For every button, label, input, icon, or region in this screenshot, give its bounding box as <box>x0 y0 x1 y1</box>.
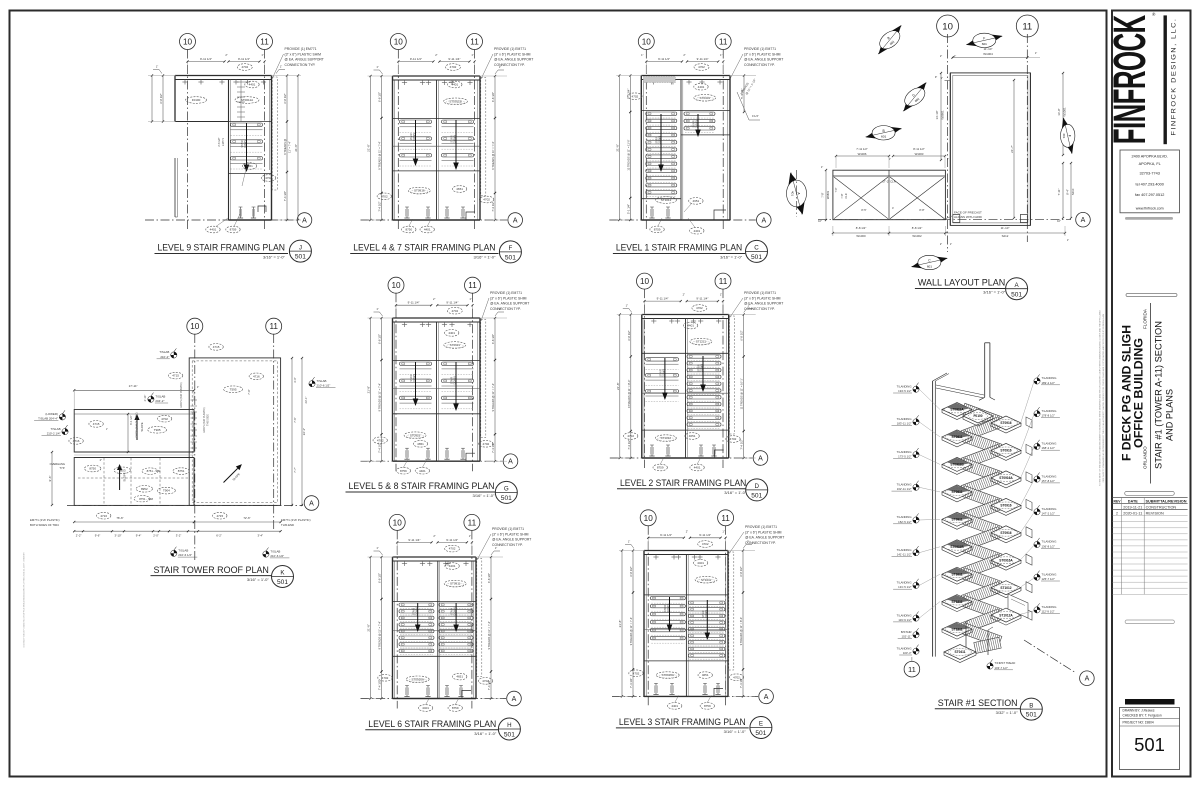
svg-text:CONSTRUCTION: CONSTRUCTION <box>1146 506 1177 510</box>
svg-text:TYP.: TYP. <box>59 466 65 470</box>
section landing left ST1211 <box>942 622 972 636</box>
svg-text:1": 1" <box>947 158 949 161</box>
svg-text:1": 1" <box>197 385 199 389</box>
level5-8 tag 8759 <box>396 467 410 474</box>
svg-text:401: 401 <box>1062 133 1066 138</box>
svg-text:401: 401 <box>791 191 795 196</box>
level2 stair down arrow 1 <box>664 358 666 393</box>
level4-7 tag 8750 <box>402 226 416 233</box>
svg-text:W1001: W1001 <box>1063 107 1067 117</box>
svg-text:6'-8 1/2": 6'-8 1/2" <box>491 92 495 102</box>
svg-text:4401: 4401 <box>210 228 217 232</box>
svg-text:ST0916: ST0916 <box>1000 421 1011 425</box>
svg-text:11: 11 <box>260 38 269 47</box>
svg-text:125'-7 1/2": 125'-7 1/2" <box>1042 577 1055 581</box>
section section bubble A <box>1080 671 1095 686</box>
svg-text:501: 501 <box>1011 291 1022 298</box>
svg-text:OFFICE BUILDING: OFFICE BUILDING <box>1134 338 1146 448</box>
svg-text:9 TREADS @: 9 TREADS @ <box>283 138 287 154</box>
section bottom landing <box>944 645 976 660</box>
svg-text:CONNECTION TYP.: CONNECTION TYP. <box>490 307 521 311</box>
level4-7 top dimension chain <box>398 61 433 63</box>
level6 tread run 1 <box>399 603 434 655</box>
svg-text:4702: 4702 <box>632 94 639 98</box>
svg-text:T/LANDING: T/LANDING <box>897 548 912 552</box>
section t/first tread label <box>987 659 993 669</box>
svg-text:1": 1" <box>722 529 724 533</box>
svg-text:STAIR #1 SECTION: STAIR #1 SECTION <box>938 697 1018 708</box>
svg-text:9'-11 1/4": 9'-11 1/4" <box>446 301 458 305</box>
svg-text:11: 11 <box>1022 22 1032 33</box>
svg-text:21'-8": 21'-8" <box>294 144 298 152</box>
svg-text:11: 11 <box>719 38 728 47</box>
svg-text:11: 11 <box>468 281 477 290</box>
level5-8 tread run 1 <box>400 362 432 409</box>
svg-text:W1004: W1004 <box>983 52 993 56</box>
svg-text:T/FIRST TREAD: T/FIRST TREAD <box>995 661 1016 665</box>
svg-text:23'-1": 23'-1" <box>304 397 308 404</box>
roofplan left dim 9-6 <box>51 452 53 505</box>
svg-text:BOTH SIDES OF T904: BOTH SIDES OF T904 <box>30 523 59 527</box>
svg-text:T/LANDING: T/LANDING <box>897 483 912 487</box>
svg-text:CLR: CLR <box>844 193 848 198</box>
roofplan grid bubble 11 <box>266 318 282 334</box>
svg-text:DOWN: DOWN <box>659 136 662 144</box>
svg-text:2: 2 <box>1116 512 1118 516</box>
svg-text:H: H <box>507 722 511 729</box>
svg-text:2": 2" <box>940 243 942 246</box>
svg-text:A: A <box>1081 217 1086 224</box>
level4-7 tag 4401 <box>420 226 434 233</box>
svg-text:4702: 4702 <box>382 676 389 680</box>
svg-text:2020-01-11: 2020-01-11 <box>1123 512 1142 516</box>
svg-text:9'-6": 9'-6" <box>95 534 101 538</box>
svg-text:(LOWER): (LOWER) <box>45 412 58 416</box>
title block border frame <box>1112 11 1191 777</box>
section flight down-left story 7 <box>961 499 1002 523</box>
level3 embed symbol <box>717 683 719 694</box>
level6 piece tag 4702 <box>478 678 492 685</box>
svg-text:10: 10 <box>642 38 652 47</box>
svg-text:189'-2 1/2": 189'-2 1/2" <box>1042 381 1055 385</box>
svg-text:9'-11 1/4": 9'-11 1/4" <box>696 297 708 301</box>
svg-text:8853: 8853 <box>119 468 126 472</box>
level2 section bubble A <box>753 451 768 466</box>
svg-text:11: 11 <box>468 518 477 527</box>
svg-text:tel 407.293.4000: tel 407.293.4000 <box>1136 183 1164 187</box>
roofplan embed hooks on grid10 wall <box>191 399 198 401</box>
svg-text:4702: 4702 <box>483 198 490 202</box>
section left landing labels <box>913 383 919 393</box>
section flight down-left story 9 <box>961 444 1002 468</box>
svg-text:1": 1" <box>376 307 378 311</box>
svg-text:9'-11 1/4": 9'-11 1/4" <box>448 57 460 61</box>
level1 centre wall <box>680 80 682 221</box>
section section line to A <box>1024 640 1076 673</box>
wallplan section line A <box>818 219 1071 221</box>
level3 embed symbol <box>671 683 673 694</box>
level1 tag 4651 <box>689 198 703 205</box>
svg-text:ST1012: ST1012 <box>661 198 672 202</box>
svg-text:ST0916A: ST0916A <box>999 559 1013 563</box>
roofplan bottom dim row <box>74 521 194 523</box>
roofplan lower-left roof rect <box>74 458 194 506</box>
svg-text:TO THE BEST OF THE ARCHITECT'S: TO THE BEST OF THE ARCHITECT'S AND ENGIN… <box>1099 309 1102 486</box>
section flight down-right story 9 <box>961 431 1002 455</box>
svg-text:6'-8 1/2": 6'-8 1/2" <box>629 566 633 576</box>
svg-text:www.finfrock.com: www.finfrock.com <box>1136 207 1164 211</box>
svg-text:4401: 4401 <box>448 331 455 335</box>
level5-8 centre wall <box>436 322 438 461</box>
svg-text:4651: 4651 <box>693 199 700 203</box>
svg-text:4401: 4401 <box>697 561 704 565</box>
svg-text:EM771 (2'x6' PLASTIC): EM771 (2'x6' PLASTIC) <box>281 518 311 522</box>
svg-text:3/16" = 1'-0": 3/16" = 1'-0" <box>247 578 270 582</box>
svg-text:8'-4": 8'-4" <box>1066 189 1070 195</box>
svg-text:4401: 4401 <box>449 564 456 568</box>
level6 plan outline walls <box>392 557 394 699</box>
svg-text:147'-2 1/2": 147'-2 1/2" <box>1042 512 1055 516</box>
svg-text:7'-4 1/2": 7'-4 1/2" <box>378 201 382 211</box>
svg-text:T/LANDING: T/LANDING <box>1042 507 1057 511</box>
svg-text:4401: 4401 <box>687 324 694 328</box>
section top rail <box>936 388 984 398</box>
svg-text:103'-7 1/2": 103'-7 1/2" <box>995 666 1008 670</box>
svg-text:7'-4 1/2": 7'-4 1/2" <box>487 680 491 690</box>
svg-text:A: A <box>513 218 518 225</box>
level6 top dimension chain <box>397 541 431 543</box>
level3 landing beam lines <box>644 594 728 596</box>
svg-text:6'-8 1/2": 6'-8 1/2" <box>283 93 287 103</box>
svg-text:119'-9 1/2": 119'-9 1/2" <box>898 618 911 622</box>
svg-text:PROVIDE (1) EM771: PROVIDE (1) EM771 <box>744 291 776 295</box>
level3 piece tag 4702 <box>629 670 643 677</box>
level9 landing beam lines <box>229 121 272 123</box>
svg-text:4702: 4702 <box>265 176 272 180</box>
svg-text:4651: 4651 <box>246 164 253 168</box>
section flight down-right story 2 <box>961 623 1002 647</box>
svg-text:DOWN: DOWN <box>413 374 416 382</box>
level3 piece tag 4651 <box>698 672 712 679</box>
level4-7 tread run 1 <box>400 120 432 166</box>
svg-text:4716: 4716 <box>253 374 260 378</box>
level1 section cut line A <box>609 219 756 221</box>
svg-text:12 TREADS @ 11" = 11'-0": 12 TREADS @ 11" = 11'-0" <box>626 139 630 170</box>
level2 tag 8759 <box>653 464 667 471</box>
level2 centre wall <box>685 319 687 459</box>
wallplan wall rect inner corner marks <box>949 73 951 226</box>
wallplan brace X left <box>834 177 888 219</box>
level1 plan outline <box>640 76 642 221</box>
level5-8 grid line 10 <box>395 293 397 471</box>
level2 top dimension chain <box>645 300 681 302</box>
svg-text:EM771 (3'x8' PLASTIC): EM771 (3'x8' PLASTIC) <box>180 382 183 407</box>
level9 grid bubble 10 <box>180 34 196 50</box>
svg-text:210'-6 1/2": 210'-6 1/2" <box>270 554 284 558</box>
svg-text:6'-8 1/2": 6'-8 1/2" <box>378 92 382 102</box>
address box <box>1120 150 1179 213</box>
svg-text:EM771: EM771 <box>222 137 225 146</box>
svg-text:LEVEL 3 STAIR FRAMING PLAN: LEVEL 3 STAIR FRAMING PLAN <box>619 716 746 727</box>
level6 embed symbol <box>427 686 429 697</box>
section right edge bar story 10 <box>1026 417 1032 428</box>
svg-text:9 1/4": 9 1/4" <box>752 114 759 118</box>
section top chimney column <box>984 343 986 398</box>
svg-text:T/LANDING: T/LANDING <box>1042 442 1057 446</box>
wallplan bottom dims <box>833 232 889 234</box>
level5-8 embed symbol <box>446 448 448 459</box>
level2 section cut line A <box>610 457 753 459</box>
svg-text:3/16" = 1'-0": 3/16" = 1'-0" <box>474 732 497 736</box>
svg-text:W1000: W1000 <box>856 234 866 238</box>
svg-text:ALIGNS WITH GRID: ALIGNS WITH GRID <box>954 215 983 219</box>
level2 piece tag ST1012 <box>655 435 676 442</box>
svg-text:1": 1" <box>954 54 956 58</box>
section flight down-right story 3 <box>961 596 1002 620</box>
section t/landing low label <box>913 645 919 655</box>
level4-7 embed symbol <box>462 207 464 218</box>
level2 piece tag 4401 <box>683 322 697 329</box>
level4-7 centre wall <box>436 80 438 220</box>
svg-text:4651: 4651 <box>456 187 463 191</box>
svg-text:DATE: DATE <box>1128 499 1139 503</box>
wallplan top-left dims of brace <box>836 155 889 157</box>
level2 piece tag 4651 <box>685 433 699 440</box>
svg-text:B: B <box>1029 702 1033 709</box>
level1 landing beam lines <box>641 110 730 112</box>
svg-text:DOWN: DOWN <box>415 607 418 615</box>
svg-text:72'-6": 72'-6" <box>243 516 250 520</box>
svg-text:9 TREADS @ 11" = 8'-3": 9 TREADS @ 11" = 8'-3" <box>739 617 743 646</box>
wallplan grid bubble 11 <box>1016 15 1038 37</box>
svg-text:1": 1" <box>156 65 158 69</box>
svg-text:3/16" = 1'-0": 3/16" = 1'-0" <box>720 256 743 260</box>
section landing right ST0916A <box>991 471 1021 485</box>
section flight down-left story 10 <box>961 417 1002 441</box>
wallplan lens marker F/601 top <box>966 33 1002 47</box>
svg-text:10: 10 <box>190 322 200 331</box>
wallplan right dim 14-0 W1001 <box>1062 73 1064 155</box>
level4-7 embed symbol <box>427 207 429 218</box>
section right edge bar story 9 <box>1026 444 1032 455</box>
lower grey bar outline <box>1125 620 1174 624</box>
svg-text:76'-6": 76'-6" <box>116 516 123 520</box>
svg-text:DOWN: DOWN <box>454 376 457 384</box>
svg-text:1": 1" <box>950 243 952 246</box>
svg-text:W0801: W0801 <box>941 110 945 120</box>
level1 embed symbols <box>651 207 653 218</box>
roofplan mid double beam <box>74 451 194 453</box>
svg-text:2'-6 1/2": 2'-6 1/2" <box>218 137 221 146</box>
wall section lens A/401 right of level 1 plan <box>787 173 807 215</box>
svg-text:@ EA. ANGLE SUPPORT: @ EA. ANGLE SUPPORT <box>744 58 783 62</box>
svg-text:ORLANDO: ORLANDO <box>1143 446 1148 469</box>
level9 left dimension chain <box>162 76 164 122</box>
level1 left dimension chain <box>629 76 631 113</box>
level6 piece tag 4401 <box>445 563 459 570</box>
revision table <box>1113 497 1188 499</box>
svg-text:1": 1" <box>495 546 497 550</box>
svg-text:178'-8 1/2": 178'-8 1/2" <box>1042 414 1055 418</box>
wallplan section bubble A <box>1076 212 1091 227</box>
level2 grid bubble 11 <box>715 273 731 289</box>
level4-7 dim tag 4702 <box>446 64 461 71</box>
roofplan piece tags lower rect <box>85 465 101 472</box>
svg-text:ST1011: ST1011 <box>952 572 963 576</box>
svg-text:@ EA. ANGLE SUPPORT: @ EA. ANGLE SUPPORT <box>490 302 529 306</box>
section right lower bracket <box>1008 594 1028 618</box>
svg-text:PROVIDE (1) EM771: PROVIDE (1) EM771 <box>744 47 776 51</box>
svg-text:7'-11 1/2": 7'-11 1/2" <box>856 147 868 151</box>
level3 section cut line A <box>612 695 758 697</box>
section flight down-left story 4 <box>961 582 1002 606</box>
svg-text:ST0916A: ST0916A <box>661 673 674 677</box>
svg-text:G: G <box>504 486 509 493</box>
svg-text:1": 1" <box>280 65 282 69</box>
svg-text:(3" x 6") PLASTIC SHIM: (3" x 6") PLASTIC SHIM <box>745 530 782 534</box>
panel H: level 6 stair framing plan <box>361 514 532 740</box>
svg-text:DOWN: DOWN <box>454 607 457 615</box>
svg-text:501: 501 <box>751 254 762 261</box>
svg-text:4401: 4401 <box>671 704 678 708</box>
level6 grid bubble 11 <box>464 514 480 530</box>
level3 grid bubble 11 <box>718 510 734 526</box>
svg-text:9": 9" <box>935 75 937 79</box>
svg-text:ST0911A: ST0911A <box>950 408 964 412</box>
svg-text:501: 501 <box>277 579 288 586</box>
panel E: level 3 stair framing plan <box>612 510 784 739</box>
svg-text:ST1211: ST1211 <box>952 600 963 604</box>
section landing right ST0916 <box>991 498 1021 512</box>
svg-text:21'-8": 21'-8" <box>367 144 371 152</box>
svg-text:210'-2 1/4": 210'-2 1/4" <box>47 431 61 435</box>
section landing left ST0911 <box>942 430 972 444</box>
svg-text:501: 501 <box>505 255 516 262</box>
level4-7 piece tag 4401 <box>448 81 462 88</box>
svg-text:9'-11 1/4": 9'-11 1/4" <box>657 297 669 301</box>
level9 corner step <box>258 206 266 212</box>
svg-text:T/SLAB: T/SLAB <box>317 379 327 383</box>
level5-8 piece tag 4702 <box>479 441 493 448</box>
roofplan t/slab markers <box>59 410 65 420</box>
svg-text:8759: 8759 <box>654 228 661 232</box>
svg-text:4702: 4702 <box>698 65 705 69</box>
svg-text:1": 1" <box>748 304 750 308</box>
svg-text:DRAWN BY: J.Reaves: DRAWN BY: J.Reaves <box>1123 709 1155 713</box>
svg-text:ST1012: ST1012 <box>661 436 672 440</box>
svg-text:4715: 4715 <box>216 514 223 518</box>
level1 grid line 10 <box>645 50 647 231</box>
svg-text:EM771 (2'x6' PLASTIC): EM771 (2'x6' PLASTIC) <box>30 518 60 522</box>
svg-text:CONNECTION TYP.: CONNECTION TYP. <box>744 63 775 67</box>
level1 top dimension chain <box>646 61 682 63</box>
svg-text:173'-5 1/2": 173'-5 1/2" <box>898 454 911 458</box>
svg-text:17'-11": 17'-11" <box>129 384 138 388</box>
svg-text:7'-7": 7'-7" <box>293 467 297 472</box>
level5-8 landing beam lines <box>393 360 481 362</box>
svg-text:11'-10": 11'-10" <box>1001 226 1010 230</box>
svg-text:4702: 4702 <box>449 547 456 551</box>
level2 dim tag 4702 <box>692 305 707 312</box>
svg-text:2'-10": 2'-10" <box>143 395 147 402</box>
section flight down-left story 5 <box>961 554 1002 578</box>
level1 tag 8759 <box>650 226 664 233</box>
level5-8 top beam <box>393 317 481 319</box>
svg-text:10: 10 <box>644 514 654 523</box>
svg-text:(3" x 6") PLASTIC SHIM: (3" x 6") PLASTIC SHIM <box>285 52 322 56</box>
level5-8 plan outline walls <box>392 318 394 461</box>
svg-text:T/LANDING: T/LANDING <box>1042 474 1057 478</box>
svg-text:7'-6": 7'-6" <box>293 417 297 422</box>
section left wall <box>932 381 934 657</box>
svg-text:LEVEL 6 STAIR FRAMING PLAN: LEVEL 6 STAIR FRAMING PLAN <box>368 718 496 729</box>
svg-text:DOWN: DOWN <box>454 135 457 143</box>
level1 hatched region top-left <box>643 77 675 83</box>
svg-text:@ EA. ANGLE SUPPORT: @ EA. ANGLE SUPPORT <box>745 536 784 540</box>
section flight down-right story 7 <box>961 486 1002 510</box>
level6 piece tag 4702 <box>378 675 392 682</box>
section landing right ST0916 <box>991 526 1021 540</box>
level3 stair down arrow 2 <box>706 600 708 633</box>
level4-7 embed symbol <box>406 207 408 218</box>
solid black bar <box>1125 699 1175 705</box>
svg-text:4401: 4401 <box>451 83 458 87</box>
level4-7 outer jamb dashed <box>481 78 486 196</box>
panel B: stair #1 isometric section <box>892 343 1095 720</box>
level3 stair down arrow 1 <box>669 597 671 625</box>
svg-text:4715: 4715 <box>172 374 179 378</box>
svg-text:2": 2" <box>683 293 685 297</box>
svg-text:@ EA. ANGLE SUPPORT: @ EA. ANGLE SUPPORT <box>285 58 324 62</box>
title divider line <box>1150 303 1152 484</box>
level2 grid bubble 10 <box>637 273 653 289</box>
svg-text:T904: T904 <box>163 489 170 493</box>
level5-8 section cut line A <box>361 460 503 462</box>
svg-text:501: 501 <box>1134 734 1165 755</box>
level3 corner step bottom right <box>714 688 723 696</box>
level5-8 dim tag 4702 <box>447 307 462 314</box>
level2 top beam <box>642 314 729 316</box>
level2 corner step bottom right <box>715 450 724 458</box>
wallplan lens marker B/601 top-left <box>871 23 908 57</box>
section right edge bar story 6 <box>1026 527 1032 538</box>
svg-text:T/LANDING: T/LANDING <box>897 613 912 617</box>
svg-text:1": 1" <box>720 293 722 297</box>
level9 grid line 10 <box>187 50 189 231</box>
wallplan tall wall rectangle <box>950 73 1030 226</box>
level6 landing beam lines <box>393 601 477 603</box>
level5-8 grid bubble 11 <box>465 277 481 293</box>
svg-text:2": 2" <box>435 53 437 57</box>
svg-text:STAIR TOWER ROOF PLAN: STAIR TOWER ROOF PLAN <box>154 564 269 575</box>
svg-text:ST0911B: ST0911B <box>950 463 964 467</box>
svg-text:T/SLAB: T/SLAB <box>51 427 61 431</box>
level5-8 corner step bottom right <box>466 453 475 461</box>
svg-text:11: 11 <box>470 38 479 47</box>
svg-text:152'-5 1/2": 152'-5 1/2" <box>898 520 911 524</box>
svg-text:6'-8 1/2": 6'-8 1/2" <box>378 334 382 344</box>
svg-text:6'-8 1/2": 6'-8 1/2" <box>487 573 491 583</box>
level4-7 section bubble A <box>508 213 523 228</box>
section flight down-right story 4 <box>961 568 1002 592</box>
svg-text:T/LANDING: T/LANDING <box>897 581 912 585</box>
level9 right dimension chain <box>286 76 288 122</box>
level1 piece tag ST1012 <box>656 197 677 204</box>
svg-text:9 TREADS @ 11" = 7'-4": 9 TREADS @ 11" = 7'-4" <box>487 621 491 650</box>
svg-text:4702: 4702 <box>381 194 388 198</box>
level9 embed symbols <box>240 207 242 218</box>
svg-text:6'-8 1/2": 6'-8 1/2" <box>740 330 744 340</box>
